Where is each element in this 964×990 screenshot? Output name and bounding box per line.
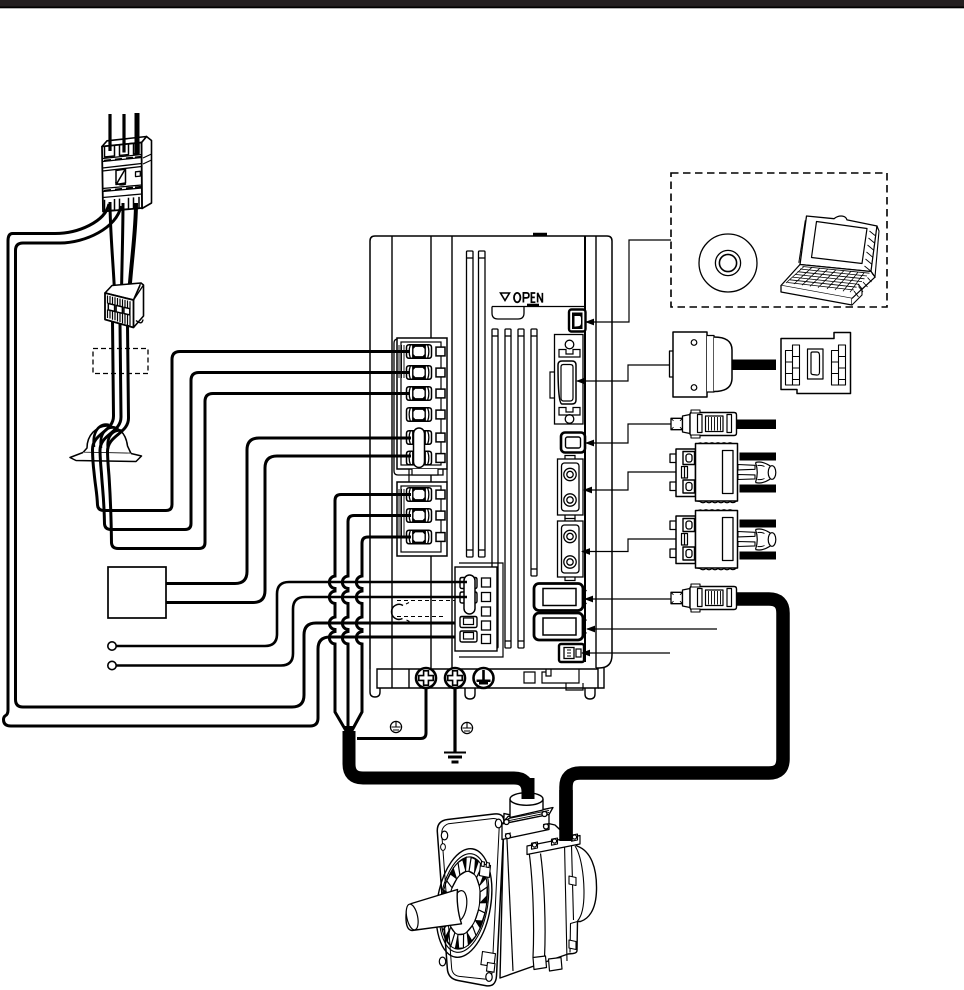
wire motor U	[329, 495, 411, 736]
terminal spare	[407, 408, 446, 422]
wire regen 2	[166, 456, 411, 603]
motor face fan pattern	[441, 857, 488, 949]
screw terminal ground wire 1	[416, 668, 436, 688]
cable clamp body	[70, 426, 142, 462]
connector jumper capsule	[464, 575, 475, 614]
motor power cable	[344, 726, 529, 801]
dashed inspection box	[93, 349, 148, 374]
terminal B1	[407, 431, 446, 445]
vent slot 1	[492, 329, 498, 648]
front cover and OPEN label	[492, 293, 585, 319]
laptop keyboard	[786, 267, 870, 293]
operator converter cable connector	[670, 332, 777, 397]
main terminal block housing	[394, 338, 447, 556]
wire control power tap 1	[4, 204, 469, 726]
CN7 USB port on drive	[569, 310, 586, 332]
bottom bar of drive	[370, 668, 604, 699]
vent slot 4	[531, 329, 537, 576]
encoder cable plug	[671, 584, 737, 612]
connector terminal A1	[460, 578, 477, 589]
wire input phase S	[122, 114, 125, 153]
screw terminal ground wire 2	[445, 668, 465, 688]
terminal U	[407, 488, 446, 502]
safety option panel 2 on drive	[558, 518, 584, 581]
circuit breaker MCCB	[102, 137, 152, 212]
encoder cable end overlay	[559, 790, 573, 841]
wire L1 terminal overlay	[390, 350, 410, 353]
wire control 1	[117, 582, 468, 646]
control terminal ring 1	[108, 642, 116, 650]
leader line safety 1	[583, 472, 676, 493]
laptop computer	[781, 216, 879, 305]
safety connector plug 1	[670, 443, 776, 503]
wire filter out 1	[92, 321, 407, 511]
wire L3 terminal overlay	[390, 392, 410, 395]
ground wire from screw 1	[357, 688, 426, 739]
safety option panel 1 on drive	[558, 456, 584, 519]
connector terminal A4	[460, 631, 477, 642]
control terminal ring 2	[108, 661, 116, 669]
CN port B on drive	[534, 613, 587, 640]
leader line CN port B	[586, 626, 717, 633]
vent slot 3	[518, 329, 524, 648]
CN3 operator connector on drive	[561, 433, 585, 453]
wire control power tap 2	[16, 206, 469, 707]
heat sink slot 2	[479, 251, 486, 557]
vent slot 2	[505, 329, 511, 648]
dashed box PC group	[671, 173, 887, 307]
servo motor body	[500, 814, 597, 979]
wire L2 terminal overlay	[390, 371, 410, 374]
motor mounting clip bottom	[481, 952, 496, 973]
cable clamp wire loops	[94, 425, 123, 449]
jumper bar B2-B3	[414, 428, 425, 468]
earth ground symbol	[444, 753, 466, 763]
CN port A on drive	[534, 584, 587, 611]
motor face rings	[429, 845, 499, 962]
CN3 cable plug	[671, 410, 776, 438]
motor shaft hub	[450, 890, 469, 923]
wire regen 1	[166, 438, 411, 584]
wire MCCB to filter 2	[122, 203, 124, 293]
motor power connector cylinder	[510, 793, 543, 818]
noise filter	[105, 283, 144, 328]
wire MCCB to filter 3	[129, 203, 136, 296]
servo drive body	[370, 235, 612, 670]
terminal V	[407, 509, 446, 523]
power cable end overlay	[522, 778, 535, 799]
wire filter out 2	[100, 323, 407, 530]
control power connector block	[392, 563, 503, 657]
screw terminal PE	[474, 668, 494, 688]
safety connector plug 2	[670, 510, 776, 570]
connector terminal A3	[460, 617, 477, 628]
motor encoder connector box	[527, 834, 580, 855]
leader line CN2 encoder	[584, 596, 671, 603]
motor mounting clip top	[479, 862, 490, 878]
motor shaft	[404, 890, 461, 931]
leader line CN1 to converter	[576, 365, 672, 384]
leader line CN7 to PC	[585, 240, 671, 325]
PE symbol left	[390, 721, 401, 732]
terminal L2	[407, 366, 446, 380]
terminal W	[407, 530, 446, 544]
wire input phase T	[135, 113, 140, 154]
wire motor W	[350, 537, 412, 735]
terminal L3	[407, 387, 446, 401]
wire input phase R	[108, 114, 111, 151]
connector terminal A2	[460, 592, 477, 603]
laptop lid hatching	[799, 220, 876, 297]
motor power connector box	[502, 808, 553, 840]
CN1 IO connector panel on drive	[550, 335, 583, 425]
battery connector on drive	[559, 644, 584, 662]
operator converter terminal unit	[781, 333, 851, 394]
leader line battery	[581, 650, 670, 657]
motor flange	[437, 814, 504, 986]
leader line safety 2	[581, 539, 676, 555]
ground wire from screw 2	[453, 688, 456, 752]
regenerative resistor box	[108, 567, 166, 618]
terminal L1	[407, 345, 446, 359]
terminal B2	[407, 451, 446, 465]
encoder cable	[566, 599, 783, 843]
wire MCCB to filter 1	[110, 202, 115, 291]
PE symbol right	[461, 722, 472, 733]
heat sink slot 1	[467, 251, 474, 557]
header bar	[0, 0, 964, 8]
wire control 2	[117, 597, 468, 666]
leader line CN3 to cable	[585, 424, 671, 446]
wire filter out 3	[107, 325, 407, 549]
wire motor V	[342, 516, 411, 735]
CD-ROM	[699, 234, 757, 292]
